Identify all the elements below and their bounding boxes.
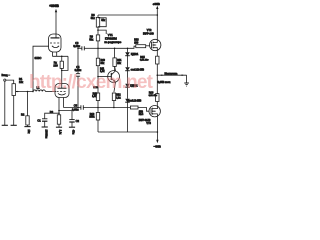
wire SRPP bypass [62, 56, 68, 70]
label R12 [116, 94, 121, 100]
wire output V2 to C5 [64, 107, 81, 109]
node mid rail junction [97, 48, 99, 50]
svg-text:−36В: −36В [154, 145, 162, 149]
wire pot bottom to ground [13, 96, 15, 126]
capacitor C4 (vertical branch) [76, 48, 80, 107]
node -36V supply [156, 140, 158, 143]
diode VD2 [125, 67, 130, 84]
wire VT3 drain down [156, 117, 158, 142]
resistor R3 [57, 115, 60, 127]
wire terminal to ground [4, 81, 6, 125]
resistor R8 with loop [96, 15, 106, 27]
wire cathode V1 legs [52, 52, 68, 56]
diode VD4 [125, 99, 130, 132]
node branch [97, 29, 99, 31]
node cathode V2 C1 branch [58, 112, 60, 114]
svg-text:IRFP-140: IRFP-140 [143, 33, 154, 36]
wire load [157, 74, 186, 76]
wire base [98, 76, 111, 78]
node output [157, 74, 159, 76]
label R14 [139, 110, 144, 116]
ground R3 [56, 126, 62, 128]
ground load [184, 75, 189, 86]
label R11 [117, 59, 122, 65]
label R15 [89, 113, 95, 119]
resistor R15 (100k to rail) [96, 108, 99, 133]
label R12 lower-left [92, 92, 98, 98]
capacitor C3 [78, 46, 98, 50]
node base junction [97, 76, 99, 78]
resistor R9 [96, 35, 99, 41]
wire bottom rail [98, 131, 157, 133]
label C3 [73, 42, 80, 48]
wire R9 down [97, 41, 99, 48]
label VT2 [143, 29, 154, 35]
label R1 10k [19, 77, 24, 84]
wire top rail [98, 14, 157, 16]
node R2 junction [27, 91, 29, 93]
ground pot [11, 124, 17, 126]
wire load arrows [160, 74, 185, 76]
svg-text:10000м: 10000м [44, 130, 47, 139]
wire anode V2 [61, 70, 63, 88]
diode VD3 [125, 84, 130, 99]
inductor L1 [33, 90, 45, 92]
resistor R10 upper [96, 48, 99, 65]
svg-text:на радиаторе: на радиаторе [104, 41, 121, 44]
svg-text:0,51-5Вт: 0,51-5Вт [149, 95, 158, 97]
wire grid V1 left [33, 46, 49, 91]
wire to C1 [45, 113, 59, 119]
resistor Rk 100 [60, 56, 63, 70]
svg-text:100: 100 [53, 63, 58, 67]
svg-text:47м: 47м [72, 130, 75, 135]
svg-text:0,68м: 0,68м [73, 45, 80, 48]
svg-text:C2: C2 [76, 119, 80, 123]
label R16 values [149, 91, 158, 97]
node bottom rail junction [157, 131, 159, 133]
resistor R16 source VT3 [156, 75, 159, 105]
svg-text:http://cxem.net: http://cxem.net [29, 72, 154, 93]
node C5 wire junctions [77, 107, 79, 109]
svg-text:R2: R2 [21, 113, 25, 117]
node mid rail dots [114, 48, 116, 50]
transistor VT1 [108, 66, 120, 92]
label VT3 [139, 119, 152, 125]
mosfet VT3 [149, 106, 160, 117]
resistor R14 [130, 106, 149, 111]
wire branch stub [98, 30, 106, 34]
node cathode V2 C2 branch [58, 110, 60, 112]
svg-text:R14: R14 [139, 113, 144, 116]
ground C1 [42, 126, 48, 128]
label VT1 [104, 33, 121, 44]
svg-text:Нагрузка: Нагрузка [165, 71, 178, 75]
svg-text:КТ602БМ: КТ602БМ [105, 37, 117, 41]
capacitor C1 [42, 119, 47, 127]
resistor R13 [136, 45, 146, 48]
svg-text:100: 100 [134, 42, 139, 45]
svg-text:VT3: VT3 [146, 122, 151, 125]
capacitor C5 [81, 105, 130, 109]
svg-text:Вход −: Вход − [2, 73, 11, 77]
svg-text:0,68м: 0,68м [72, 108, 79, 111]
resistor R12 lower-left [96, 93, 99, 108]
svg-text:R3: R3 [50, 110, 54, 114]
wire L1 to V2 grid [45, 91, 56, 93]
svg-text:КД521: КД521 [131, 53, 139, 56]
tube V2 (lower triode) [55, 84, 69, 98]
wire R8 to R9 [97, 27, 99, 35]
node rail junction [157, 14, 159, 16]
label C5 [72, 105, 79, 112]
wire to C2 [59, 111, 72, 120]
node +300V supply [55, 9, 57, 38]
capacitor C2 [69, 120, 74, 128]
svg-text:6Н8С: 6Н8С [35, 56, 42, 60]
resistor R15 source VT2 [156, 51, 159, 75]
node anode V2 junction [61, 70, 63, 72]
wire left column to base [97, 66, 99, 93]
svg-text:C1: C1 [37, 118, 41, 122]
ground R2 [24, 126, 30, 128]
node +36V supply [156, 6, 158, 15]
label R15 values [140, 56, 149, 62]
svg-text:0,51-5Вт: 0,51-5Вт [140, 60, 149, 62]
wire mid rail [98, 46, 136, 48]
ground C2 [69, 126, 75, 128]
potentiometer R1 [12, 84, 19, 96]
svg-text:R15: R15 [140, 56, 145, 59]
label R13 [134, 39, 139, 45]
label C4 [75, 66, 82, 72]
resistor R12 emitter [112, 93, 115, 108]
wire R13 to gate [146, 45, 150, 47]
wire +36V to VT2 [156, 15, 158, 39]
label R9 [89, 35, 94, 41]
label R11 value pair [100, 67, 105, 73]
node cathode V1 junction [61, 56, 63, 58]
wire wiper to L1 [16, 91, 33, 93]
label R10 upper [101, 59, 106, 65]
diode VD1 [125, 48, 130, 67]
input terminal [4, 79, 14, 84]
svg-text:стаб.12-15В: стаб.12-15В [128, 99, 142, 102]
svg-text:+300В: +300В [49, 4, 59, 8]
label Rk 100 [53, 60, 58, 67]
node C3 branch [77, 48, 79, 50]
tube V1 (upper triode) [49, 34, 62, 52]
wire V2 legs [59, 98, 64, 115]
resistor R11 [113, 48, 116, 71]
resistor R2 [26, 92, 29, 127]
svg-text:0,05В пост.: 0,05В пост. [158, 81, 171, 84]
mosfet VT2 [150, 39, 161, 50]
svg-text:+36В: +36В [153, 2, 161, 6]
node grid junction [32, 91, 34, 93]
ground input [2, 124, 8, 126]
